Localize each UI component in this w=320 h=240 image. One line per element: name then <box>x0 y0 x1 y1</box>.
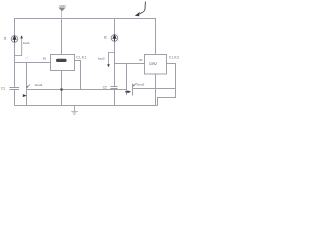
wire net Vout2 horizontal <box>133 88 176 90</box>
wire U1 bottom pin <box>61 71 63 106</box>
annotation arrow Vout1 <box>23 85 30 98</box>
wire bottom ground bus <box>15 105 158 107</box>
svg-text:CIR2: CIR2 <box>149 62 157 66</box>
annotation current probe Iout2 <box>107 53 114 68</box>
svg-text:CLK2: CLK2 <box>169 56 180 60</box>
svg-text:CLK1: CLK1 <box>76 56 87 60</box>
svg-text:IN: IN <box>43 57 46 61</box>
svg-text:n5: n5 <box>25 56 29 60</box>
junction dot node Vout1 / U1 bottom <box>60 88 62 90</box>
capacitor C2 <box>111 87 118 89</box>
svg-text:VDD: VDD <box>59 4 66 8</box>
svg-text:I2: I2 <box>104 35 107 39</box>
wire top rail VDD <box>15 19 156 55</box>
wire bar node Vout2 <box>132 84 134 96</box>
power symbol VDD <box>59 8 65 11</box>
block U1 CIR1 box <box>51 55 75 71</box>
svg-text:IN: IN <box>139 58 142 62</box>
current source I2 <box>111 35 118 42</box>
wire net Vout1 horizontal <box>27 89 127 91</box>
svg-text:Iout1: Iout1 <box>23 41 30 45</box>
wire IN net to U1 <box>15 62 51 64</box>
annotation current probe Iout1 <box>15 35 23 55</box>
wire U1 OUT pin <box>75 61 81 90</box>
wire U2 bottom pin <box>155 74 157 106</box>
svg-text:Iout2: Iout2 <box>98 57 105 61</box>
cursor arrow annotation top right <box>135 2 146 17</box>
power symbol VDD stem <box>61 11 63 19</box>
wire node Vout1 vertical <box>26 63 28 106</box>
svg-text:I1: I1 <box>4 37 7 41</box>
svg-text:C1: C1 <box>1 87 5 91</box>
wire VDD stem to U1 top pin <box>61 19 63 55</box>
block U2 CIR2 box <box>145 55 167 75</box>
svg-text:Vout2: Vout2 <box>136 82 144 86</box>
annotation arrow Vout2 <box>125 83 136 93</box>
wire gate stub <box>126 64 128 96</box>
svg-text:C2: C2 <box>103 85 107 89</box>
svg-text:Vout1: Vout1 <box>35 83 43 87</box>
ground <box>71 106 77 115</box>
wire left branch vertical lower <box>14 90 16 106</box>
wire left branch vertical upper <box>14 19 16 88</box>
current source I1 <box>11 36 18 43</box>
block U1 name pill <box>56 59 67 62</box>
capacitor C1 <box>10 88 20 90</box>
wire I2 branch to U2 IN <box>115 19 145 64</box>
wire U2 right pin path <box>158 64 176 106</box>
wire C2 branch upper <box>114 64 116 87</box>
wire C2 branch lower <box>114 89 116 106</box>
